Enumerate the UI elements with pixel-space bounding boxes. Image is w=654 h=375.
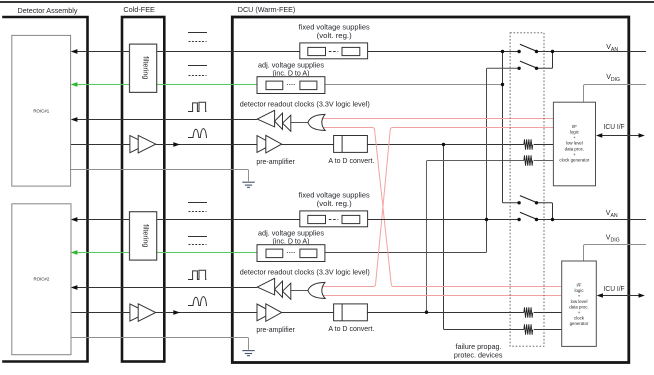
wire: top cross-strap resistor to top I/F box [534, 160, 554, 162]
level symbol solid line (bottom wire 2) [188, 236, 207, 238]
svg-text:I/F: I/F [576, 282, 581, 287]
svg-text:data proc.: data proc. [569, 304, 589, 309]
level symbol solid line (bottom wire 1) [188, 202, 207, 204]
svg-text:Cold-FEE: Cold-FEE [123, 5, 154, 14]
A/D inner divider (top) [341, 136, 343, 153]
level symbol dashed line (top wire 2) [189, 75, 207, 77]
I/F logic box (bottom) [562, 261, 597, 346]
clock buffer chain (top) triangle 1 [257, 110, 274, 127]
svg-text:filtering: filtering [142, 224, 151, 247]
wire between clock buffers and OR1 [291, 122, 308, 124]
ROIC#2 box [12, 204, 71, 355]
arrowhead into ROIC#1 (green adj line) [71, 82, 78, 87]
fixed supplies inner module 1 (top) [308, 47, 326, 55]
wire: switch S3 output down to bottom V_AN [537, 203, 553, 220]
svg-text:fixed voltage supplies: fixed voltage supplies [299, 190, 370, 199]
pre-amplifier (top) triangle A [257, 136, 273, 153]
switch S3 contact dot right [535, 201, 538, 204]
top rule [0, 1, 654, 3]
svg-text:A to D convert.: A to D convert. [328, 156, 374, 165]
ICU I/F bidirectional arrow (bottom) [599, 295, 643, 297]
clock buffer chain (bottom) triangle 1 [257, 278, 274, 295]
svg-text:filtering: filtering [142, 56, 151, 79]
square wave symbol (bottom clock wire) [188, 270, 206, 279]
filtering box (bottom) [130, 212, 157, 260]
square wave symbol (top clock wire) [188, 102, 206, 111]
svg-text:protec. devices: protec. devices [454, 351, 503, 360]
fixed supplies ellipsis dashes (bottom) [329, 219, 338, 221]
cold-FEE amplifier (bottom) triangle A [130, 304, 147, 321]
OR gate U2 (bottom, pointing left) [308, 282, 325, 298]
svg-text:pre-amplifier: pre-amplifier [256, 157, 295, 166]
switch S2 blade [520, 61, 536, 68]
wire: top A/D branch down to bottom I/F (cross-strap) [444, 145, 524, 330]
arrowhead into ROIC#2 (green adj line) [71, 250, 78, 255]
switch S2 contact dot left [517, 67, 520, 70]
cold-FEE amplifier (bottom) triangle B [138, 304, 156, 322]
junction node on bottom A/D output [425, 311, 428, 314]
wire: bottom analog line cold amp to A/D [156, 312, 334, 314]
switch S4 blade [520, 212, 536, 219]
arrowhead mid analog line (bottom) [173, 310, 180, 315]
clock buffer chain (bottom) triangle 3 [283, 283, 291, 299]
junction dot top V_AN / vertical B [501, 50, 504, 53]
wire: switch S2 output up to top V_AN [537, 52, 553, 69]
pre-amplifier (top) triangle B [266, 135, 282, 153]
clock buffer chain (top) triangle 3 [283, 115, 291, 131]
switch S3 contact dot left [517, 201, 520, 204]
DCU (Warm-FEE) frame [232, 17, 629, 363]
pink clock line P: OR2 input 1 to top I/F [323, 128, 554, 287]
adj supplies inner module 1 (top) [266, 81, 283, 90]
junction dot adj output / vertical B [501, 83, 504, 86]
resistor R3 (bottom A/D to I/F) [524, 307, 533, 317]
svg-text:clock generator: clock generator [559, 158, 590, 163]
svg-text:low level: low level [566, 141, 583, 146]
arrowhead into ROIC#2 (clock line) [71, 285, 78, 290]
svg-text:pre-amplifier: pre-amplifier [256, 325, 295, 334]
Cold-FEE frame [122, 17, 164, 362]
level symbol solid line (top wire 1) [188, 32, 207, 34]
I/F logic box text (top) [559, 124, 590, 163]
wire: bottom ground return (gray) [71, 338, 249, 350]
svg-text:DCU (Warm-FEE): DCU (Warm-FEE) [238, 5, 296, 14]
wire: bottom clock line to buffer chain [72, 287, 257, 289]
fixed supplies inner module 2 (top) [342, 47, 360, 55]
clock buffer chain (top) triangle 2 [275, 113, 283, 129]
wire: top clock line to buffer chain [72, 119, 257, 121]
cold-FEE amplifier (top) triangle A [130, 136, 147, 153]
wire: bottom supply line to switch S4 [72, 219, 519, 221]
wire between clock buffers and OR2 [291, 290, 308, 292]
OR gate U1 (top, pointing left) [308, 114, 325, 130]
wire: top analog line ROIC to cold amp [71, 144, 131, 146]
I/F logic box text (bottom) [569, 282, 589, 326]
adj supplies inner module 1 (bottom) [266, 249, 283, 258]
switch S4 contact dot right [535, 218, 538, 221]
svg-text:logic: logic [574, 288, 584, 293]
wire: bottom analog line ROIC to cold amp [71, 312, 131, 314]
pink clock line Q: OR1 input 2 to bottom I/F [323, 128, 562, 287]
arrowhead into ROIC#2 (supply line) [71, 217, 78, 222]
wire: top adjustable supply line (green) [72, 84, 258, 86]
svg-text:generator: generator [570, 321, 589, 326]
switch S4 contact dot left [517, 218, 520, 221]
svg-text:clock: clock [574, 315, 585, 320]
pink clock line: bottom I/F to OR2 input 2 [323, 295, 562, 297]
Detector Assembly bracket frame [2, 17, 87, 362]
level symbol dashed line (top wire 1) [189, 41, 207, 43]
svg-text:Detector Assembly: Detector Assembly [18, 6, 78, 15]
wire: bottom A/D branch up to top I/F (cross-strap, gray) [427, 161, 524, 312]
junction dot bottom V_AN / S3 dropper [551, 218, 554, 221]
wire: V_DIG bottom (gray) to edge [584, 245, 647, 262]
resistor R2 (top cross-strap) [524, 155, 533, 165]
switch S3 blade [520, 196, 536, 203]
analog pulse symbol (top video wire) [188, 129, 207, 138]
fixed supplies inner module 2 (bottom) [342, 215, 360, 223]
switch S1 contact dot right [535, 50, 538, 53]
adj voltage supplies box (bottom) [257, 245, 325, 262]
svg-text:(inc. D to A): (inc. D to A) [273, 237, 310, 246]
wire: bottom adjustable supply line (green) [72, 252, 258, 254]
failure propagation protection dashed enclosure [510, 33, 544, 346]
wire: resistor to bottom I/F box [534, 312, 562, 314]
svg-text:ICU I/F: ICU I/F [604, 124, 625, 131]
svg-text:+: + [573, 152, 576, 157]
switch S2 contact dot right [535, 67, 538, 70]
I/F logic box (top) [553, 102, 595, 186]
ICU I/F bidirectional arrow (top) [598, 135, 643, 137]
level symbol solid line (top wire 2) [188, 65, 207, 67]
svg-text:detector readout clocks (3.3V: detector readout clocks (3.3V logic leve… [240, 100, 370, 109]
fixed voltage supplies box (top) [300, 43, 368, 59]
resistor R1 (top A/D to I/F) [524, 139, 533, 149]
junction dot bottom V_AN / vertical A [485, 218, 488, 221]
svg-text:(volt. reg.): (volt. reg.) [317, 31, 352, 40]
ICU arrow left head (top) [596, 133, 602, 138]
wire: bottom cross-strap resistor to bottom I/F box [534, 329, 562, 331]
wire: top analog line cold amp to A/D [156, 144, 334, 146]
ICU arrow right head (bottom) [639, 293, 645, 298]
svg-text:data proc.: data proc. [565, 146, 585, 151]
switch S1 contact dot left [517, 50, 520, 53]
adj voltage supplies box (top) [257, 77, 325, 94]
svg-text:+: + [578, 293, 581, 298]
fixed supplies ellipsis dashes (top) [329, 51, 338, 53]
ground symbol (bottom) [242, 351, 254, 356]
arrowhead into ROIC#1 (supply line) [71, 49, 78, 54]
svg-text:I/F: I/F [572, 124, 577, 129]
pre-amplifier (bottom) triangle B [266, 304, 282, 322]
ground symbol (top) [242, 182, 254, 187]
wire: top supply line to switch S1 [72, 51, 519, 53]
arrowhead into ROIC#1 (clock line) [71, 117, 78, 122]
ROIC#1 box [12, 35, 71, 186]
svg-text:A to D convert.: A to D convert. [328, 324, 374, 333]
clock buffer chain (bottom) triangle 2 [275, 281, 283, 297]
svg-text:ROIC#2: ROIC#2 [33, 277, 49, 282]
svg-text:ROIC#1: ROIC#1 [33, 109, 49, 114]
level symbol dashed line (bottom wire 2) [189, 244, 207, 246]
adj supplies ellipsis dots (top) [287, 84, 296, 86]
resistor R4 (bottom cross-strap) [524, 324, 533, 334]
svg-text:(volt. reg.): (volt. reg.) [317, 199, 352, 208]
wire: vertical A bottom adj net up to switch S2 [325, 68, 519, 252]
analog pulse symbol (bottom video wire) [188, 297, 207, 306]
svg-text:+: + [573, 135, 576, 140]
A to D converter box (top) [334, 136, 368, 153]
fixed supplies inner module 1 (bottom) [308, 215, 326, 223]
svg-text:detector readout clocks (3.3V: detector readout clocks (3.3V logic leve… [240, 268, 370, 277]
adj supplies ellipsis dots (bottom) [287, 252, 296, 254]
wire: bottom V_AN line to edge [537, 219, 647, 221]
svg-text:(inc. D to A): (inc. D to A) [273, 69, 310, 78]
pink clock line: top I/F to OR1 input 1 [323, 118, 554, 120]
cold-FEE amplifier (top) triangle B [138, 135, 156, 153]
junction node on top A/D output [442, 143, 445, 146]
wire: V_DIG top (gray) to edge [584, 85, 647, 103]
fixed voltage supplies box (bottom) [300, 211, 368, 227]
adj supplies inner module 2 (top) [300, 81, 317, 90]
ICU arrow right head (top) [639, 133, 645, 138]
wire: top ground return (gray) [71, 170, 249, 182]
wire: top adj supply output (gray) to node [325, 84, 503, 86]
level symbol dashed line (bottom wire 1) [189, 211, 207, 213]
filtering box (top) [130, 44, 157, 92]
pre-amplifier (bottom) triangle A [257, 304, 273, 321]
svg-text:low level: low level [571, 299, 588, 304]
wire: vertical B top V_AN net down to switch S3 [503, 52, 520, 203]
wire: resistor to top I/F box [534, 144, 554, 146]
adj supplies inner module 2 (bottom) [300, 249, 317, 258]
svg-text:fixed voltage supplies: fixed voltage supplies [299, 22, 370, 31]
wire: bottom A/D output to resistor [367, 312, 524, 314]
A/D inner divider (bottom) [341, 304, 343, 321]
svg-text:+: + [578, 310, 581, 315]
wire: top V_AN line to edge [537, 51, 647, 53]
switch S1 blade [520, 44, 536, 51]
arrowhead mid analog line (top) [173, 142, 180, 147]
junction dot top V_AN / S2 riser [551, 50, 554, 53]
svg-text:ICU I/F: ICU I/F [604, 286, 625, 293]
svg-text:logic: logic [570, 130, 580, 135]
wire: top A/D output to resistor [367, 144, 524, 146]
A to D converter box (bottom) [334, 304, 368, 321]
ICU arrow left head (bottom) [597, 293, 603, 298]
